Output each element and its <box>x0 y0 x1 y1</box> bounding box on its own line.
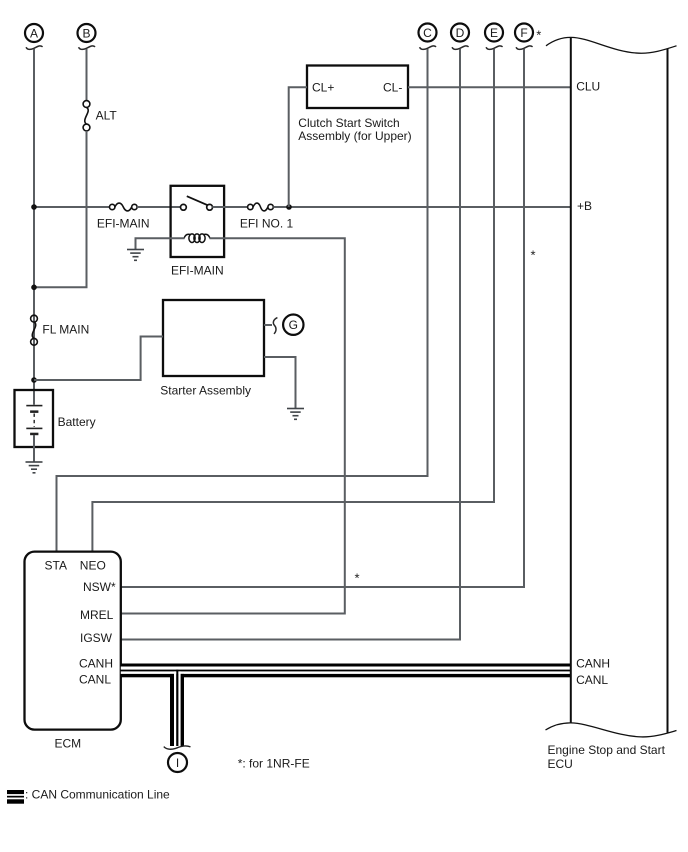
fuse EFI NO. 1 <box>248 203 274 211</box>
svg-text:G: G <box>289 318 298 332</box>
ECU box right edge <box>667 49 669 733</box>
wire C to STA <box>57 49 428 552</box>
break symbol under connector D <box>452 46 469 49</box>
svg-text:EFI NO. 1: EFI NO. 1 <box>240 216 294 230</box>
wire B vertical upper <box>86 49 88 101</box>
CAN communication lines CANH/CANL <box>121 664 571 747</box>
svg-text:CANL: CANL <box>79 673 111 687</box>
svg-text:E: E <box>490 26 498 40</box>
wire fuse to relay box <box>137 206 183 208</box>
svg-text:+B: +B <box>577 199 592 213</box>
svg-text:Engine Stop and Start: Engine Stop and Start <box>548 743 666 757</box>
ECU (Engine Stop and Start) box left edge <box>570 37 572 723</box>
svg-text:Clutch Start Switch: Clutch Start Switch <box>298 116 399 130</box>
svg-text:*: for 1NR-FE: *: for 1NR-FE <box>238 757 310 771</box>
connector D <box>451 24 469 42</box>
wire coil to ground <box>136 238 185 249</box>
svg-text:ECU: ECU <box>548 757 573 771</box>
svg-text:Starter Assembly: Starter Assembly <box>160 384 251 398</box>
ground at relay coil <box>127 249 144 261</box>
fusible link FL MAIN <box>31 315 38 345</box>
junction dot A/B <box>31 285 37 291</box>
wire E to NEO <box>92 49 494 552</box>
svg-text:ECM: ECM <box>54 737 81 751</box>
svg-text:I: I <box>176 756 179 770</box>
wire CL- to ECU CLU <box>408 86 571 88</box>
wire B vertical lower and join to A line <box>34 131 87 287</box>
connector A <box>25 24 43 42</box>
svg-text:EFI-MAIN: EFI-MAIN <box>171 263 224 277</box>
legend CAN communication line symbol <box>7 790 24 804</box>
wire relay to fuse EFI NO.1 <box>212 206 247 208</box>
ECU box top wavy edge <box>546 37 677 53</box>
fuse EFI-MAIN <box>110 203 138 211</box>
svg-text:*: * <box>354 571 359 586</box>
break symbol under connector E <box>486 46 503 49</box>
wire A vertical <box>33 49 35 405</box>
svg-text:EFI-MAIN: EFI-MAIN <box>97 216 150 230</box>
wire fuse EFI NO.1 to ECU +B <box>273 206 571 208</box>
junction dot battery/starter branch <box>31 377 37 383</box>
main bus wire +B (left segment to fuse) <box>34 206 110 208</box>
junction dot main bus at A line <box>31 204 37 210</box>
clutch start switch box <box>307 66 408 109</box>
connector B <box>78 24 96 42</box>
ground at battery <box>26 461 43 473</box>
relay EFI-MAIN box <box>171 186 225 257</box>
svg-text:ALT: ALT <box>96 108 118 122</box>
break symbol under connector B <box>79 46 96 49</box>
break symbol under connector C <box>420 46 437 49</box>
wire D to IGSW <box>121 49 460 640</box>
svg-text:NSW*: NSW* <box>83 580 116 594</box>
connector F <box>515 24 533 42</box>
svg-text:STA: STA <box>45 558 67 572</box>
svg-text:MREL: MREL <box>80 608 114 622</box>
junction dot clutch branch <box>286 204 292 210</box>
battery cell plates <box>26 405 42 435</box>
svg-text:Battery: Battery <box>58 415 96 429</box>
wire battery to ground <box>33 435 35 462</box>
svg-text:CLU: CLU <box>576 80 600 94</box>
break symbol under connector A <box>26 46 43 49</box>
wire F to NSW <box>121 49 524 587</box>
connector I <box>168 753 187 772</box>
ECM box <box>25 552 121 730</box>
ground at starter <box>287 408 304 420</box>
break symbol under connector F <box>516 46 533 49</box>
svg-text:*: * <box>530 248 535 263</box>
svg-text:F: F <box>520 26 527 40</box>
wire starter to connector G <box>264 324 272 326</box>
svg-text:B: B <box>82 26 90 40</box>
wire relay coil to MREL <box>121 238 345 613</box>
relay switch contacts <box>181 204 213 210</box>
svg-text:C: C <box>423 26 432 40</box>
svg-text:CANH: CANH <box>576 656 610 670</box>
svg-text:FL MAIN: FL MAIN <box>42 322 89 336</box>
fusible link ALT <box>83 101 90 131</box>
svg-text:NEO: NEO <box>80 558 106 572</box>
svg-text:: CAN Communication Line: : CAN Communication Line <box>25 788 170 802</box>
svg-text:CL-: CL- <box>383 80 402 94</box>
svg-text:IGSW: IGSW <box>80 631 113 645</box>
break symbol at G <box>273 318 277 334</box>
svg-text:CANL: CANL <box>576 673 608 687</box>
svg-text:D: D <box>456 26 465 40</box>
relay switch blade <box>187 196 208 205</box>
ECU box bottom wavy edge <box>546 723 677 737</box>
connector G <box>283 315 303 335</box>
wire CL+ to main bus <box>289 87 307 207</box>
connector E <box>485 24 503 42</box>
starter assembly box <box>163 300 264 376</box>
svg-text:Assembly (for Upper): Assembly (for Upper) <box>298 129 411 143</box>
svg-text:CANH: CANH <box>79 656 113 670</box>
wire starter to ground <box>264 357 296 408</box>
connector C <box>419 24 437 42</box>
wire battery junction to starter <box>34 337 163 381</box>
svg-text:CL+: CL+ <box>312 80 334 94</box>
break symbol above connector I <box>164 746 191 749</box>
svg-text:A: A <box>30 26 38 40</box>
relay coil <box>184 234 210 243</box>
battery box <box>15 390 54 447</box>
svg-text:*: * <box>536 27 541 42</box>
